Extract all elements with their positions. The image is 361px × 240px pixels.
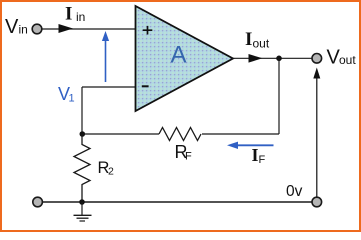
svg-text:V: V	[5, 16, 19, 38]
resistor RF	[159, 128, 201, 141]
svg-text:in: in	[76, 10, 85, 24]
terminal rail left	[33, 197, 43, 207]
ground	[74, 202, 92, 221]
wire: feedback right segment	[202, 133, 279, 135]
svg-text:in: in	[19, 23, 28, 37]
terminal Vout	[312, 54, 322, 64]
arrow IF (blue, left)	[227, 142, 274, 149]
svg-text:F: F	[185, 151, 192, 163]
terminal Vin	[32, 24, 42, 34]
svg-text:out: out	[253, 36, 270, 50]
svg-text:out: out	[339, 53, 356, 67]
svg-text:I: I	[245, 29, 252, 50]
wire: op-amp output to Vout	[233, 57, 312, 59]
wire: vertical from inverting corner down to feedback node	[81, 87, 83, 134]
op-amp U1 triangle	[136, 6, 234, 111]
wire: output junction down to feedback line	[278, 58, 280, 134]
svg-text:A: A	[171, 42, 187, 69]
wire: 0v rail	[37, 201, 317, 203]
node: rail-R2 junction	[79, 199, 85, 205]
arrow V1 (blue, up)	[102, 31, 109, 82]
wire: Vin terminal to op-amp + input	[42, 28, 136, 30]
node: feedback junction	[80, 131, 86, 137]
svg-text:F: F	[259, 154, 266, 166]
op-amp + pin mark	[143, 26, 153, 35]
arrowhead Iout	[249, 54, 263, 63]
arrow Vout voltage (up)	[313, 68, 320, 198]
svg-text:I: I	[252, 145, 259, 165]
svg-text:2: 2	[108, 166, 114, 178]
svg-text:I: I	[65, 4, 72, 25]
op-amp - pin mark	[142, 85, 149, 87]
svg-text:0v: 0v	[286, 183, 303, 200]
svg-text:1: 1	[69, 93, 75, 105]
node: output junction	[276, 56, 282, 62]
resistor R2	[74, 134, 90, 202]
wire: inverting input horizontal	[82, 86, 136, 88]
arrowhead Iin	[59, 24, 74, 33]
terminal rail right	[312, 197, 322, 207]
wire: feedback left segment	[82, 133, 159, 135]
